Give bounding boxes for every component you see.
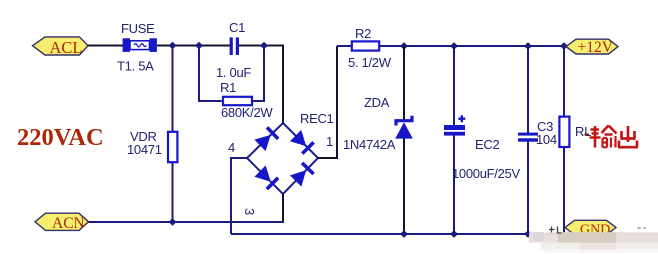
zener diode ZDA bbox=[395, 116, 413, 139]
svg-text:680K/2W: 680K/2W bbox=[221, 105, 273, 120]
svg-text:1: 1 bbox=[326, 134, 333, 149]
svg-text:ACN: ACN bbox=[52, 215, 85, 232]
terminal +12V bbox=[566, 39, 618, 56]
junction at R1/C1 loop right bbox=[260, 42, 268, 49]
diode D-topright bbox=[290, 130, 306, 146]
svg-text:104: 104 bbox=[536, 132, 557, 147]
svg-text:1N4742A: 1N4742A bbox=[343, 137, 396, 152]
fuse FUSE bbox=[123, 38, 157, 52]
svg-text:1000uF/25V: 1000uF/25V bbox=[452, 166, 520, 181]
junction EC2 bottom bbox=[450, 230, 458, 237]
svg-text:R2: R2 bbox=[355, 26, 371, 41]
svg-text:RL: RL bbox=[575, 124, 591, 139]
wire ACN to bridge bbox=[89, 221, 285, 223]
capacitor C1 bbox=[230, 37, 239, 55]
diode D-topleft bbox=[254, 135, 270, 151]
diode D-bottomleft bbox=[254, 165, 270, 181]
wire VDR branch bbox=[172, 46, 174, 223]
wire bridge pin1 up bbox=[318, 46, 337, 158]
svg-text:REC1: REC1 bbox=[300, 111, 334, 126]
wire FUSE to C1 bbox=[157, 45, 230, 47]
svg-text:FUSE: FUSE bbox=[121, 21, 155, 36]
varistor VDR bbox=[168, 132, 177, 162]
svg-text:ACL: ACL bbox=[50, 38, 83, 57]
bridge rectifier REC1 bbox=[247, 123, 318, 194]
svg-text:3: 3 bbox=[242, 208, 257, 215]
svg-text:EC2: EC2 bbox=[475, 137, 499, 152]
junction ZDA bottom bbox=[400, 230, 408, 237]
wire C1 to corner bbox=[239, 45, 284, 47]
wire RL branch bbox=[563, 46, 565, 117]
junction EC2 top bbox=[450, 42, 458, 49]
junction at VDR bottom bbox=[169, 218, 177, 225]
capacitor EC2 bbox=[444, 115, 465, 135]
capacitor C3 bbox=[518, 133, 538, 142]
svg-text:T1. 5A: T1. 5A bbox=[117, 59, 154, 74]
wire top DC rail bbox=[337, 45, 567, 47]
svg-text:5. 1/2W: 5. 1/2W bbox=[348, 55, 392, 70]
resistor R1 bbox=[223, 97, 252, 105]
svg-text:4: 4 bbox=[228, 140, 235, 155]
junction at VDR top bbox=[169, 42, 177, 49]
diode D-bottomright bbox=[290, 170, 306, 186]
terminal ACL bbox=[33, 37, 89, 57]
text 输出 bbox=[585, 126, 639, 148]
wire R1 loop right bbox=[252, 46, 264, 102]
wire bottom DC rail bbox=[231, 233, 566, 235]
svg-text:C1: C1 bbox=[229, 20, 245, 35]
junction at R1/C1 loop left bbox=[195, 42, 203, 49]
wire EC2 branch bbox=[453, 46, 455, 125]
svg-text:R1: R1 bbox=[220, 80, 236, 95]
terminal ACN bbox=[35, 213, 89, 232]
junction ZDA top bbox=[400, 42, 408, 49]
junction C3 top bbox=[524, 42, 532, 49]
junction C3 bottom bbox=[524, 230, 532, 237]
svg-text:+12V: +12V bbox=[578, 39, 614, 56]
wire bridge pin3 to ACN bbox=[282, 194, 284, 222]
watermark bbox=[529, 227, 658, 253]
junction RL top bbox=[560, 42, 568, 49]
svg-text:ZDA: ZDA bbox=[364, 95, 390, 110]
resistor RL bbox=[559, 117, 569, 147]
svg-text:220VAC: 220VAC bbox=[17, 124, 104, 151]
wire ACL to FUSE bbox=[88, 45, 123, 47]
wire R1 loop left bbox=[199, 46, 223, 102]
wire zener branch bbox=[403, 46, 405, 120]
svg-text:1. 0uF: 1. 0uF bbox=[216, 65, 251, 80]
terminal GND bbox=[565, 220, 616, 237]
wire AC top to bridge bbox=[282, 46, 284, 124]
wire C3 branch bbox=[527, 46, 529, 133]
wire bridge pin4 to ground rail bbox=[231, 158, 247, 234]
resistor R2 bbox=[352, 41, 379, 50]
svg-text:10471: 10471 bbox=[127, 142, 162, 157]
